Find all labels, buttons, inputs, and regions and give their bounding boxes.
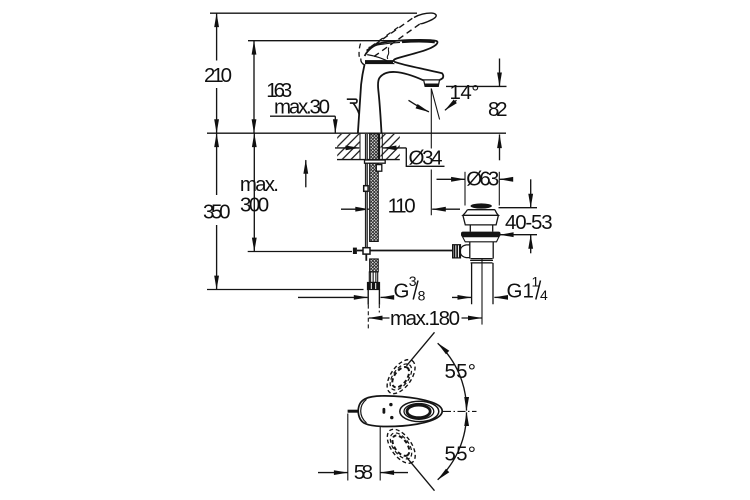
rod coupling square <box>363 248 370 254</box>
dim 210 line lower <box>216 88 218 133</box>
aerator black bottom <box>425 83 439 86</box>
dim max30 up arrow below counter <box>305 160 307 187</box>
hose dashed break <box>378 305 380 313</box>
ghost lever lower <box>382 424 421 468</box>
mounting nut <box>376 165 382 172</box>
svg-text:55°: 55° <box>445 360 477 383</box>
dim max30 down arrow <box>334 116 336 133</box>
svg-text:110: 110 <box>388 195 416 218</box>
countertop bottom line <box>337 159 400 161</box>
G38 nut slits <box>370 283 372 289</box>
raised handle tip <box>414 13 436 24</box>
countertop top line <box>207 132 506 134</box>
popup body <box>470 242 493 259</box>
aerator <box>424 80 440 87</box>
svg-text:G: G <box>394 280 410 303</box>
dim 110 right arrow <box>432 208 460 210</box>
popup dome <box>471 203 492 208</box>
plan bar mark <box>383 408 386 414</box>
handle ring inner <box>407 405 430 418</box>
stream vertical centerline <box>430 89 432 216</box>
rod tail <box>365 254 367 261</box>
svg-text:max.30: max.30 <box>274 96 330 119</box>
dim G114 left arrow <box>452 296 471 298</box>
popup neck <box>470 225 492 232</box>
svg-text:4: 4 <box>540 287 548 303</box>
svg-text:300: 300 <box>240 194 269 217</box>
dim O63 left arrow <box>437 178 465 180</box>
horizontal linkage rod <box>357 250 453 252</box>
dim 82 bottom arrow <box>499 135 501 161</box>
rod end cap <box>353 248 357 254</box>
handle ring outer <box>400 401 439 421</box>
ref line spout level <box>446 85 507 87</box>
dim 110 left arrow <box>341 208 369 210</box>
faucet body left edge <box>358 64 365 133</box>
spout top edge <box>394 62 443 80</box>
svg-text:350: 350 <box>203 201 231 224</box>
dim 82 top arrow <box>499 59 501 87</box>
tailpipe <box>472 263 493 304</box>
dim max300 line <box>253 134 255 252</box>
dim O63 right arrow <box>500 178 513 180</box>
motion arc left <box>359 44 360 59</box>
popup joint band <box>470 259 493 263</box>
ref line 40-53 top <box>499 207 538 209</box>
pull rod knob stem <box>353 103 359 114</box>
svg-text:3: 3 <box>409 273 417 289</box>
supply hose <box>368 290 379 305</box>
body to spout joint <box>367 55 394 64</box>
shank right black bar <box>378 134 380 160</box>
stream tilted line 14deg <box>431 89 439 120</box>
pull rod below counter <box>365 134 367 248</box>
dim O34 step and underline <box>406 148 444 166</box>
plan body outline <box>358 396 442 427</box>
knurled knob <box>453 245 461 258</box>
plan pull stub <box>348 410 359 413</box>
plan centerline <box>443 410 477 412</box>
dim 58 left arrow <box>318 472 348 474</box>
handle hub black band <box>365 60 393 64</box>
popup flange <box>463 210 499 225</box>
svg-text:40-53: 40-53 <box>505 211 553 234</box>
washer under counter <box>365 160 386 163</box>
svg-text:Ø34: Ø34 <box>409 147 443 170</box>
dim 350 line upper <box>216 134 218 196</box>
dim O63 ext left <box>464 172 466 206</box>
dim 58 ext left <box>347 414 349 481</box>
svg-text:max.180: max.180 <box>390 307 460 330</box>
55 upper arc <box>438 343 467 410</box>
14deg arc arrow <box>409 100 429 112</box>
dim O34 left arrow <box>335 147 359 149</box>
drain centerline ext <box>481 258 483 325</box>
svg-text:210: 210 <box>204 64 232 87</box>
raised handle dashed line 2 <box>374 24 421 57</box>
svg-text:58: 58 <box>354 461 373 484</box>
counter hatch left <box>337 134 360 159</box>
G38 nut <box>367 282 379 289</box>
pull rod knob <box>347 99 357 103</box>
dim max30 underline <box>270 115 335 117</box>
counter hole right edge <box>381 133 383 159</box>
svg-text:14°: 14° <box>450 81 480 104</box>
popup seal ring black <box>461 232 501 237</box>
handle ring mid <box>404 404 434 420</box>
dim G38 right arrow <box>381 296 394 298</box>
dim 210 line upper <box>216 14 218 61</box>
plan dot bottom <box>390 416 393 419</box>
lever axis lower 55 <box>407 457 435 491</box>
dim G38 left arrow <box>298 296 367 298</box>
svg-text:55°: 55° <box>445 443 477 466</box>
threaded shank upper <box>370 134 379 242</box>
dim 40-53 upper arrow <box>530 179 532 207</box>
svg-text:G1: G1 <box>507 280 534 303</box>
ref line top (210 upper) <box>210 12 417 14</box>
dim 350 line lower <box>216 225 218 289</box>
svg-text:Ø63: Ø63 <box>466 168 499 191</box>
dim 40-53 lower arrow <box>530 235 532 253</box>
handle outline <box>365 40 438 62</box>
rod connector block <box>364 186 368 192</box>
popup lower flange <box>463 237 500 242</box>
dim 58 right arrow <box>381 472 409 474</box>
dim 58 ext right <box>379 411 381 481</box>
max180 ext left dashed <box>367 305 369 330</box>
dim max180 left arrow <box>369 317 390 319</box>
dim 163 line <box>253 41 255 133</box>
lever boss <box>460 245 470 258</box>
svg-text:8: 8 <box>418 288 426 304</box>
lever axis upper 55 <box>407 332 435 366</box>
plan dot top <box>389 403 392 406</box>
55 lower arc <box>438 412 467 479</box>
faucet front edge and spout underside <box>378 72 423 133</box>
counter hatch right <box>381 134 400 159</box>
raised handle dashed line 1 <box>367 18 414 51</box>
supply thread below rod <box>370 259 379 272</box>
ghost lever upper <box>382 355 421 399</box>
ribbed adapter <box>369 272 377 283</box>
handle inner top line <box>369 42 401 47</box>
counter hole left edge <box>359 133 361 159</box>
svg-text:82: 82 <box>488 98 508 121</box>
label G114 <box>507 274 549 304</box>
dim G114 right arrow <box>494 296 506 298</box>
14deg leader arrow <box>445 100 457 110</box>
plan inner left cap <box>361 399 367 423</box>
dim O34 right arrow <box>383 147 407 149</box>
ref line max300 bottom <box>248 251 352 253</box>
label G38 <box>394 273 426 304</box>
ref line 40-53 bottom with arrow <box>500 234 537 236</box>
ref line 350 bottom <box>207 289 364 291</box>
ref line handle top (163 upper) <box>248 40 436 42</box>
motion hook <box>361 59 365 65</box>
dim max180 right arrow <box>462 317 482 319</box>
raised handle dashed line 3 <box>371 25 402 47</box>
handle squiggle <box>387 48 389 60</box>
dim O63 ext right <box>498 172 500 206</box>
